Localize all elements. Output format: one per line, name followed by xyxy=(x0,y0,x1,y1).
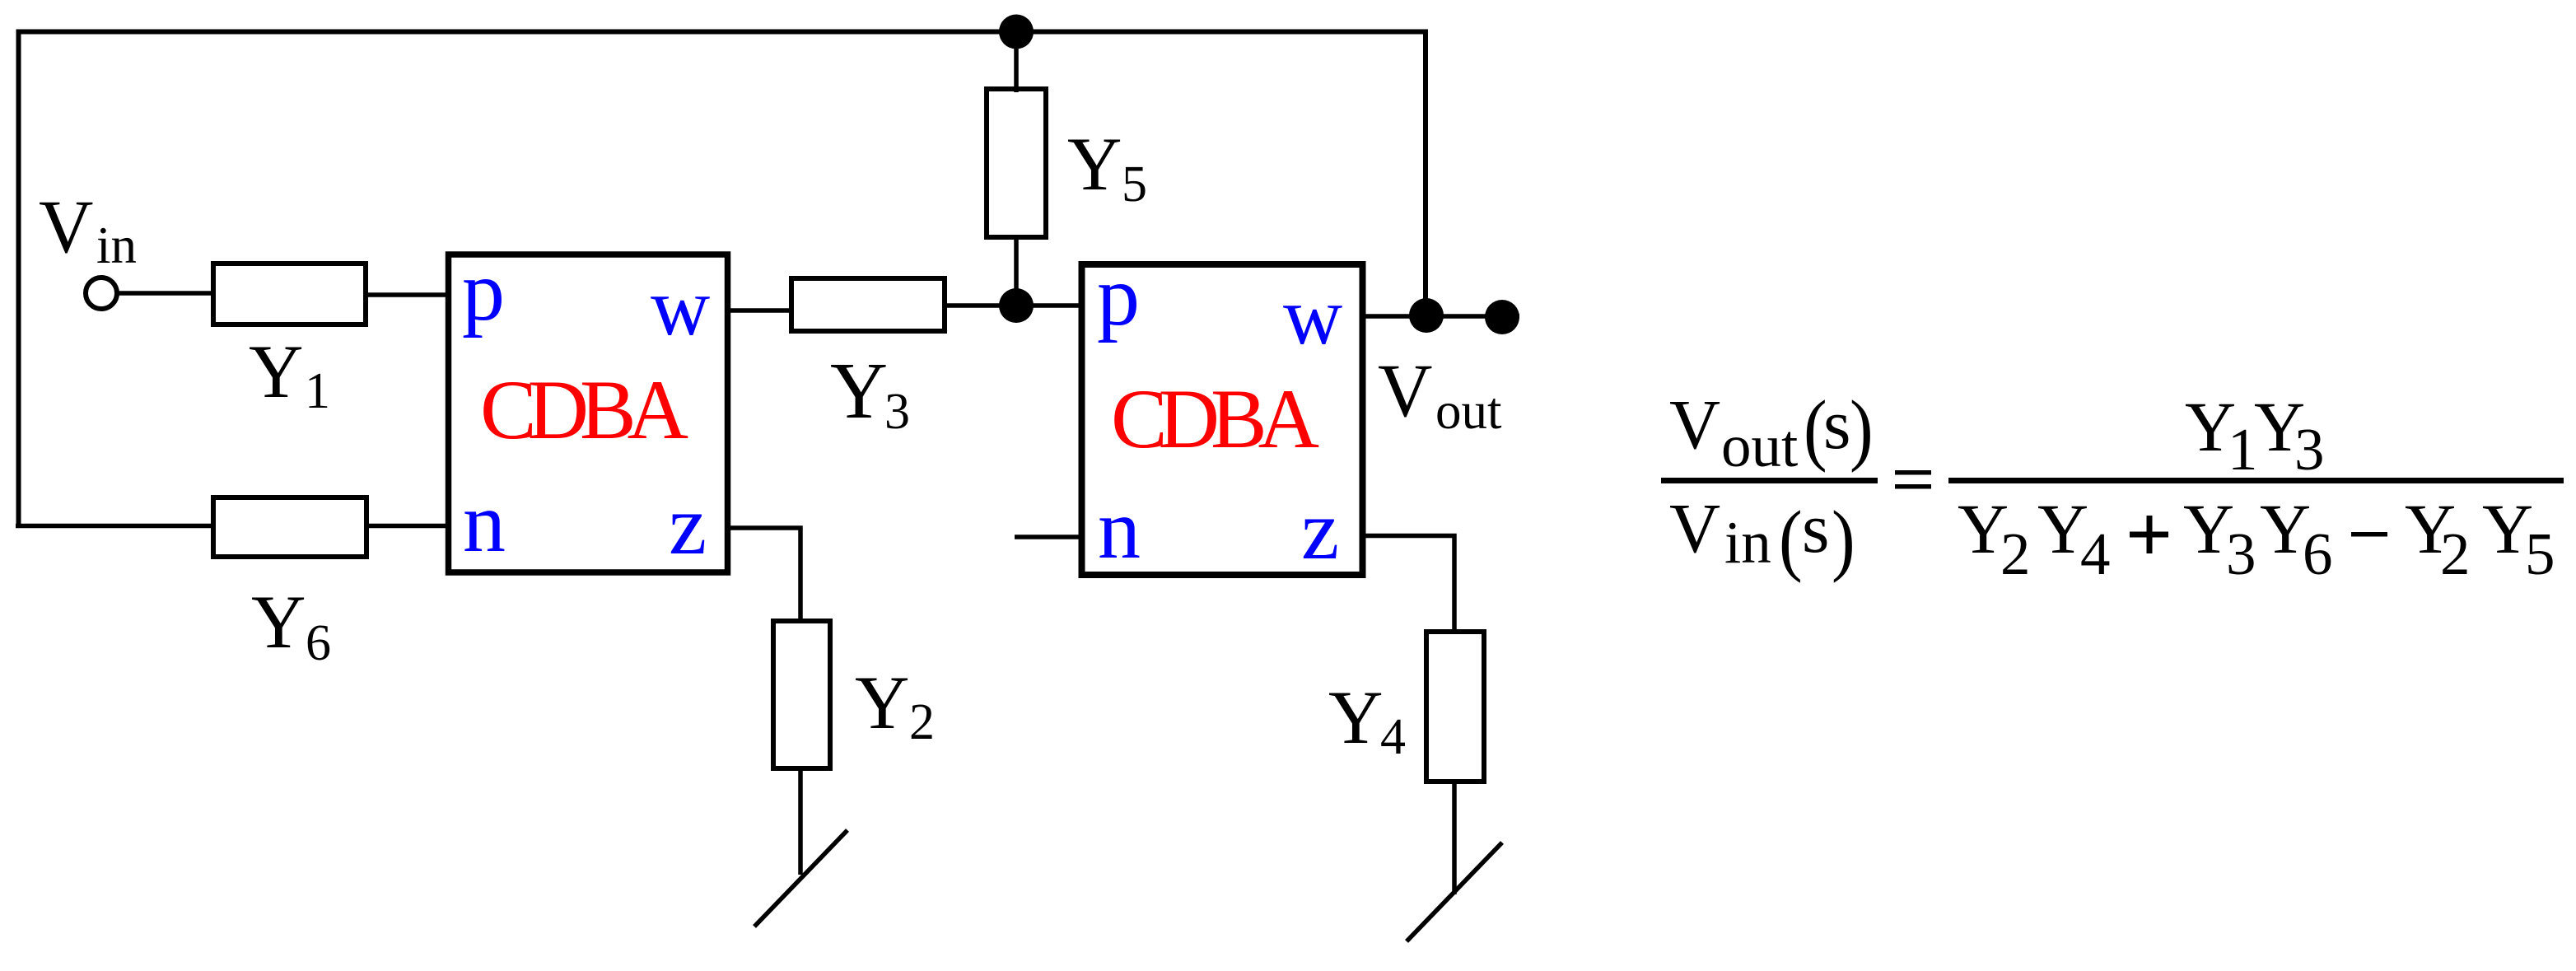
svg-text:3: 3 xyxy=(884,384,910,440)
resistor Y5 xyxy=(987,89,1046,237)
formula: equals sign xyxy=(1895,470,1931,475)
wire: Y4 bottom lead xyxy=(1452,782,1457,894)
svg-text:Y: Y xyxy=(830,347,888,435)
node: top junction dot xyxy=(999,15,1034,49)
wire: Y3 to CDBA2 p with junction xyxy=(945,303,1083,308)
svg-text:V: V xyxy=(1378,348,1432,432)
formula: RHS fraction bar xyxy=(1948,478,2564,483)
node: output dot left xyxy=(1409,298,1444,333)
svg-text:(: ( xyxy=(1779,494,1803,583)
ground (Y2) xyxy=(754,830,847,927)
svg-text:6: 6 xyxy=(306,615,331,671)
formula: denominator Y2 Y4 + Y3 Y6 - Y2 Y5 xyxy=(1958,489,2555,587)
svg-text:2: 2 xyxy=(909,694,935,750)
svg-text:z: z xyxy=(669,478,707,572)
svg-text:z: z xyxy=(1301,483,1339,577)
wire: CDBA2 n stub xyxy=(1015,535,1083,539)
ground (Y4) xyxy=(1407,843,1502,941)
svg-text:Y: Y xyxy=(855,661,909,745)
svg-text:p: p xyxy=(462,244,505,338)
svg-text:p: p xyxy=(1097,249,1140,343)
svg-text:): ) xyxy=(1850,384,1874,473)
svg-text:Y: Y xyxy=(1067,122,1122,206)
wire: CDBA1 w to Y3 xyxy=(728,308,794,313)
wire: Y6 to CDBA1 n xyxy=(366,524,449,529)
resistor Y2 xyxy=(773,621,830,768)
svg-text:V: V xyxy=(1669,385,1720,464)
node: output dot right xyxy=(1485,300,1519,334)
resistor Y4 xyxy=(1426,632,1484,782)
svg-text:6: 6 xyxy=(2303,521,2333,587)
svg-text:3: 3 xyxy=(2294,416,2325,483)
resistor Y6 xyxy=(213,497,366,557)
svg-text:Y: Y xyxy=(249,329,303,413)
svg-text:1: 1 xyxy=(305,363,330,419)
op-amp block CDBA U1 xyxy=(449,254,728,572)
wire: CDBA2 z down to Y4 xyxy=(1363,536,1454,635)
svg-text:5: 5 xyxy=(1122,156,1147,212)
wire: CDBA1 z down to Y2 xyxy=(728,528,800,623)
formula: Vin(s) denominator of LHS xyxy=(1669,488,1855,583)
svg-text:in: in xyxy=(96,217,137,274)
svg-text:2: 2 xyxy=(2000,521,2031,587)
svg-text:in: in xyxy=(1724,509,1771,576)
formula: Vout(s) numerator of LHS xyxy=(1669,384,1874,479)
svg-text:4: 4 xyxy=(2080,521,2111,587)
svg-text:out: out xyxy=(1721,413,1798,479)
wire: top feedback horizontal xyxy=(19,32,1426,529)
resistor Y1 xyxy=(213,264,366,324)
svg-text:CDBA: CDBA xyxy=(480,363,688,457)
svg-text:2: 2 xyxy=(2440,521,2471,587)
wire: Vin to Y1 xyxy=(117,291,216,296)
wire: Y2 bottom lead xyxy=(798,768,803,875)
node Vin terminal circle xyxy=(86,278,117,309)
svg-text:s: s xyxy=(1802,488,1829,567)
svg-text:n: n xyxy=(1098,482,1141,577)
svg-text:w: w xyxy=(1283,270,1342,362)
wire: left vertical to Y6 xyxy=(16,524,216,529)
svg-text:Y: Y xyxy=(1328,675,1383,759)
svg-text:V: V xyxy=(1669,488,1720,567)
formula: numerator Y1 Y3 xyxy=(2185,387,2325,483)
wire: Y5 bottom lead xyxy=(1014,237,1019,306)
node: junction dot at Y5 bottom xyxy=(999,288,1034,323)
svg-text:CDBA: CDBA xyxy=(1111,372,1319,466)
svg-text:n: n xyxy=(463,475,506,570)
svg-text:): ) xyxy=(1832,494,1855,583)
svg-text:5: 5 xyxy=(2525,521,2555,587)
svg-text:w: w xyxy=(651,261,710,352)
svg-text:4: 4 xyxy=(1380,709,1406,765)
svg-text:Y: Y xyxy=(251,580,306,664)
wire: CDBA2 w output xyxy=(1363,314,1519,319)
svg-text:3: 3 xyxy=(2226,521,2256,587)
formula: LHS fraction bar xyxy=(1661,478,1878,483)
wire: Y5 top lead xyxy=(1014,31,1019,92)
resistor Y3 xyxy=(791,278,945,331)
svg-text:V: V xyxy=(39,184,93,268)
svg-text:out: out xyxy=(1435,382,1502,440)
wire: Y1 to CDBA1 p xyxy=(366,292,449,297)
svg-text:s: s xyxy=(1823,385,1850,464)
op-amp block CDBA U2 xyxy=(1082,264,1363,575)
